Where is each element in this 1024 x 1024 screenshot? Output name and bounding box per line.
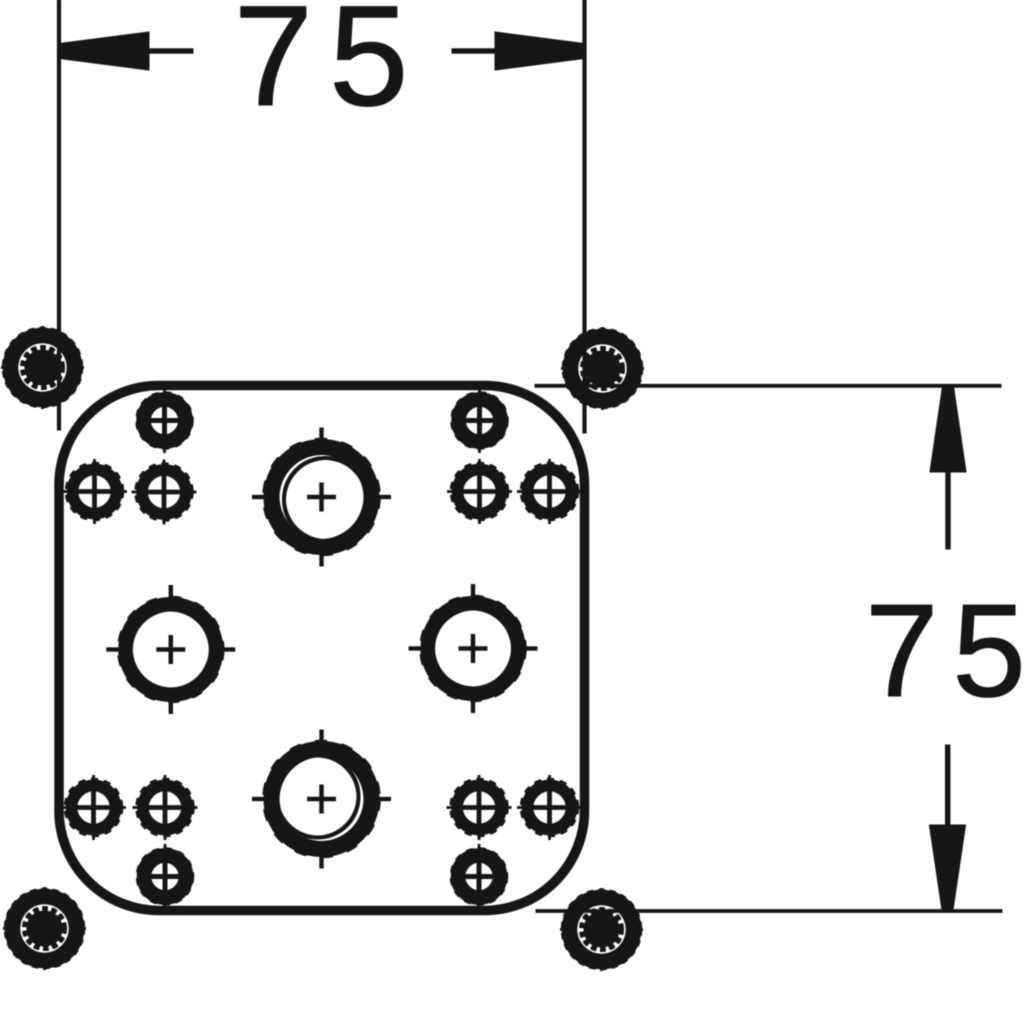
plate outline (rounded square)	[59, 386, 585, 911]
dimension arrow left (points left)	[60, 32, 193, 70]
inner sleeve bottom-center (offset thin circle)	[277, 756, 359, 838]
screw hole top-left cluster upper	[138, 389, 191, 453]
screw hole top-right cluster outer	[518, 460, 582, 524]
screw hole bottom-right cluster outer	[518, 776, 582, 840]
screw hole top-right cluster upper	[453, 389, 506, 453]
hole big bottom-center	[253, 730, 391, 868]
dimension arrow up	[930, 387, 966, 549]
corner screw top-left	[2, 327, 84, 409]
screw hole top-left cluster inner	[132, 460, 196, 524]
svg-text:75: 75	[865, 577, 1024, 724]
corner screw bottom-right	[561, 889, 643, 971]
dimension arrow right (points right)	[452, 32, 584, 70]
extension line bottom (right dimension)	[536, 910, 1002, 913]
dimension arrow down	[930, 745, 966, 910]
hole big top-center	[253, 428, 391, 566]
corner screw bottom-left	[4, 888, 86, 970]
screw hole bottom-left cluster inner	[133, 776, 197, 840]
hole medium mid-left	[107, 586, 235, 714]
extension line right (top dimension)	[583, 0, 586, 433]
svg-text:75: 75	[234, 0, 425, 136]
extension line top (right dimension)	[535, 384, 1001, 387]
screw hole bottom-left cluster outer	[62, 776, 126, 840]
extension line left (top dimension)	[57, 0, 60, 430]
screw hole bottom-right cluster lower	[453, 845, 506, 909]
screw hole top-right cluster inner	[448, 460, 512, 524]
screw hole bottom-right cluster inner	[447, 776, 511, 840]
screw hole bottom-left cluster lower	[139, 845, 192, 909]
screw hole top-left cluster outer	[63, 460, 127, 524]
inner sleeve top-center (offset thin circle)	[284, 458, 367, 541]
hole medium mid-right	[409, 585, 537, 713]
corner screw top-right	[562, 328, 644, 410]
